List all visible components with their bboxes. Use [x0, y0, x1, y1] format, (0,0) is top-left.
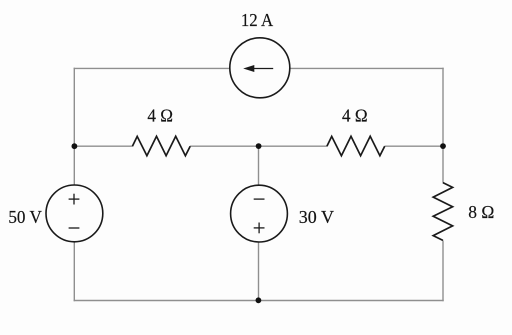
wire right vertical upper — [442, 68, 444, 183]
voltage source V1 plus sign — [69, 198, 80, 200]
wire bottom horizontal — [74, 300, 444, 302]
wire left vertical upper — [73, 68, 75, 185]
resistor R1 4 ohm (left) — [132, 136, 190, 155]
wire left vertical lower — [73, 242, 75, 302]
voltage source V1 minus sign — [69, 227, 80, 229]
wire right vertical lower — [442, 240, 444, 301]
wire middle vertical upper (node to 30V source) — [258, 146, 260, 185]
node B (center middle junction) — [256, 143, 262, 149]
resistor R3 8 ohm (vertical right) — [433, 183, 452, 241]
svg-text:50 V: 50 V — [8, 207, 41, 227]
wire middle horizontal right of R2 — [385, 145, 444, 147]
svg-text:8 Ω: 8 Ω — [468, 202, 494, 222]
wire top-left horizontal — [74, 67, 230, 69]
svg-text:12 A: 12 A — [241, 10, 273, 30]
wire middle horizontal between R1 and R2 — [190, 145, 327, 147]
voltage source V2 minus sign — [254, 198, 265, 200]
wire top-right horizontal — [290, 67, 444, 69]
current source 12 A (circle) — [230, 38, 290, 98]
voltage source V1 50 V (circle) — [46, 185, 103, 242]
wire middle horizontal left of R1 — [74, 145, 133, 147]
svg-text:30 V: 30 V — [299, 207, 334, 227]
resistor R2 4 ohm (right) — [327, 136, 385, 155]
node D (bottom center junction) — [256, 297, 262, 303]
voltage source V2 30 V (circle) — [231, 185, 288, 242]
svg-text:4 Ω: 4 Ω — [342, 105, 368, 125]
node A (left middle junction) — [72, 143, 78, 149]
voltage source V2 plus sign — [254, 227, 265, 229]
wire middle vertical lower (30V source to bottom) — [258, 242, 260, 301]
node C (right middle junction) — [440, 143, 446, 149]
svg-text:4 Ω: 4 Ω — [147, 105, 173, 125]
current source arrow — [249, 68, 273, 70]
